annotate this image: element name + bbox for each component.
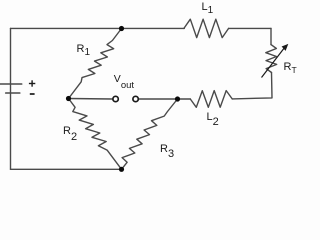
label R1 <box>77 43 91 55</box>
wire: top rail left segment (top-left corner to L1) <box>11 27 185 29</box>
label L2 <box>207 111 219 123</box>
resistor R1 (diagonal, left node to top node) <box>69 29 122 99</box>
Vout left open terminal <box>113 96 118 101</box>
junction node left (R1/R2/Vout-) <box>66 96 71 101</box>
label RT <box>284 61 297 73</box>
Vout right open terminal <box>133 96 138 101</box>
label L1 <box>202 1 214 13</box>
wire: left rail (top-left corner down to bottom-left corner, through battery) <box>10 28 12 169</box>
wire: right rail top (top-right corner down to RT) <box>270 28 272 44</box>
wire: Vout left terminal to left node <box>69 98 113 101</box>
arrow of variable resistor RT <box>262 44 289 78</box>
resistor R3 (diagonal, bottom node to right node) <box>122 99 178 169</box>
wire: right rail bottom (RT to corner, then left to L2) <box>232 73 272 99</box>
junction node bottom (R2/R3/battery) <box>119 167 124 172</box>
wire: L2 to right node <box>178 98 191 100</box>
label R3 <box>160 143 174 155</box>
junction node right (R3/L2/Vout+) <box>175 96 180 101</box>
resistor R2 (diagonal, left node to bottom node) <box>69 99 122 170</box>
wire: top rail right segment (L1 to top-right corner) <box>229 27 271 29</box>
label R2 <box>63 125 77 137</box>
battery plate short (negative) <box>6 92 20 94</box>
inductor L2 (drawn as zigzag) <box>190 91 232 108</box>
battery negative sign <box>30 93 35 95</box>
resistor RT (variable, vertical zigzag) <box>266 45 277 73</box>
battery positive sign <box>29 80 35 86</box>
junction node top (R1/L1) <box>119 26 124 31</box>
battery plate long (positive) <box>0 83 22 85</box>
inductor L1 (drawn as zigzag in top rail) <box>184 19 229 37</box>
label Vout <box>114 73 134 85</box>
wire: bottom rail (bottom-left corner to bottom node) <box>11 168 122 170</box>
wire: right node to Vout right terminal <box>139 98 177 100</box>
